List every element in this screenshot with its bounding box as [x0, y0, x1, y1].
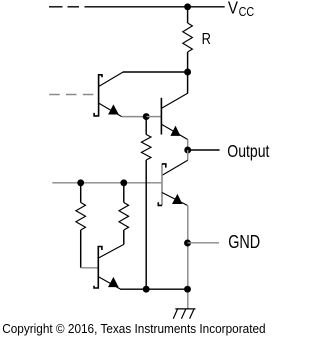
node Output junction [184, 147, 191, 154]
node VCC junction [184, 3, 191, 10]
wire Q1 base dashed [49, 94, 93, 96]
wire Q3 collector stub [187, 150, 189, 160]
ground symbol [173, 309, 195, 319]
resistor R2 zigzag [141, 135, 151, 161]
node R2 bottom junction [143, 286, 150, 293]
svg-text:CC: CC [239, 4, 255, 19]
wire Q2 collector diagonal [162, 93, 188, 108]
node ground junction [184, 286, 191, 293]
node Q2 base junction [143, 113, 150, 120]
transistor Q4 base bar [94, 247, 102, 289]
arrow Q2 emitter [170, 126, 180, 136]
svg-text:GND: GND [228, 232, 260, 252]
wire GND net vertical [187, 205, 189, 309]
transistor Q3 base bar [161, 164, 163, 206]
wire VCC rail dashed stub [49, 6, 79, 8]
wire Q1 collector diagonal [99, 72, 123, 87]
wire Q3 emitter diagonal [162, 193, 187, 206]
wire VCC rail [85, 6, 225, 8]
wire Q4 emitter diagonal [99, 277, 121, 289]
transistor Q2 base bar [160, 98, 162, 135]
wire Q2 collector vertical [187, 72, 189, 94]
transistor Q3 bottom hook [158, 202, 162, 205]
wire Q2 base lead [146, 116, 161, 118]
wire bottom rail [120, 288, 188, 290]
resistor R [187, 7, 189, 72]
wire GND lead [188, 242, 220, 244]
svg-text:V: V [228, 0, 238, 18]
node GND junction [184, 240, 191, 247]
resistor R3 [80, 183, 82, 268]
arrow Q1 emitter [108, 104, 119, 114]
wire Q4 collector diagonal [99, 244, 124, 258]
node R4 top junction [120, 179, 127, 186]
resistor R4 zigzag [119, 203, 129, 231]
arrow Q4 emitter [108, 277, 119, 287]
transistor Q1 base bar [94, 75, 102, 116]
resistor R4 [123, 183, 125, 245]
wire Q1 collector horizontal [123, 71, 188, 73]
wire Q4 base lead [81, 267, 99, 269]
resistor R3 zigzag [76, 203, 86, 231]
node collector junction [184, 69, 191, 76]
transistor Q3 top hook [162, 164, 166, 168]
resistor R zigzag [183, 23, 193, 52]
wire Q2 emitter diagonal [161, 124, 187, 139]
wire Q2 emitter to output node [187, 140, 189, 151]
svg-text:Copyright © 2016, Texas Instru: Copyright © 2016, Texas Instruments Inco… [2, 321, 265, 336]
wire Output lead [188, 149, 220, 151]
resistor R2 [145, 117, 147, 290]
svg-text:Output: Output [227, 141, 269, 161]
svg-text:R: R [202, 31, 211, 48]
wire Q1 emitter diagonal [99, 103, 122, 116]
wire Q3 base lead [52, 182, 162, 184]
wire Q3 collector diagonal [162, 160, 188, 175]
arrow Q3 emitter [172, 194, 182, 204]
wire Q1 emitter to node [122, 116, 147, 118]
node R3 top junction [77, 179, 84, 186]
